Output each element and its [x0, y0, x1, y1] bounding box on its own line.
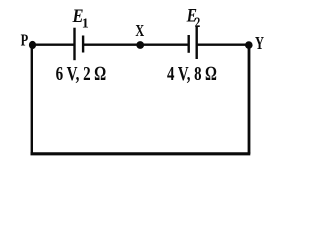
svg-text:2: 2 [195, 15, 201, 31]
svg-text:4 V, 8 Ω: 4 V, 8 Ω [167, 63, 217, 85]
svg-text:Y: Y [255, 33, 264, 53]
svg-text:X: X [135, 21, 144, 40]
svg-text:P: P [21, 31, 29, 50]
svg-text:6 V, 2 Ω: 6 V, 2 Ω [56, 63, 106, 85]
svg-text:1: 1 [82, 16, 89, 31]
